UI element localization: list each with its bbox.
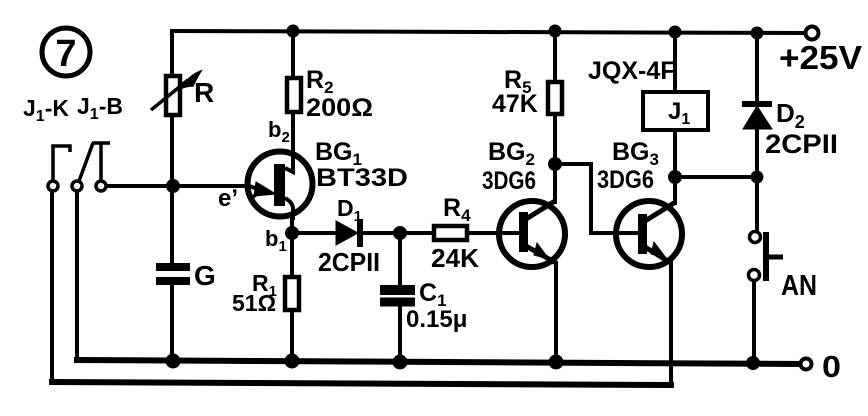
svg-text:BG3: BG3	[612, 138, 659, 169]
svg-text:eʼ: eʼ	[218, 185, 238, 212]
svg-text:D1: D1	[337, 195, 362, 225]
relay coil J1 box	[643, 92, 708, 130]
svg-text:R4: R4	[443, 194, 471, 225]
svg-text:7: 7	[55, 33, 76, 75]
svg-text:+25V: +25V	[779, 39, 862, 76]
svg-text:G: G	[194, 260, 216, 291]
svg-text:2CPII: 2CPII	[765, 129, 838, 159]
resistor R variable	[151, 71, 201, 115]
svg-text:24K: 24K	[431, 243, 479, 273]
svg-text:AN: AN	[781, 270, 817, 302]
resistor R1	[285, 277, 299, 310]
svg-text:0: 0	[822, 349, 841, 384]
wire inner bottom rail 0V	[77, 360, 801, 364]
wire BG3 emitter down to outer rail	[669, 263, 673, 384]
svg-text:51Ω: 51Ω	[232, 290, 276, 316]
wire b1 to R1 vertical	[290, 220, 294, 361]
svg-text:D2: D2	[776, 98, 805, 132]
wire J1 branch x=675	[673, 32, 677, 177]
wire R5 junction to BG3 base	[555, 164, 640, 233]
wire top rail	[172, 31, 806, 33]
wire left branch vertical x=172	[170, 31, 174, 361]
svg-text:b2: b2	[268, 117, 290, 146]
wire node link to D2	[675, 175, 757, 179]
svg-text:2CPII: 2CPII	[318, 247, 380, 277]
svg-text:J1-B: J1-B	[77, 93, 123, 123]
svg-text:47K: 47K	[492, 90, 538, 118]
svg-text:3DG6: 3DG6	[597, 166, 654, 194]
svg-text:BT33D: BT33D	[316, 164, 408, 192]
transistor BG1 unijunction	[246, 150, 313, 220]
wire R5 vertical x=555	[553, 31, 557, 164]
wire C1 vertical	[398, 233, 402, 361]
resistor R5	[548, 82, 562, 114]
wire b1-D1-C1-R4 row y=233	[292, 231, 521, 235]
wire BG3 collector	[673, 177, 677, 203]
contact J1-K	[48, 146, 70, 191]
node junction dots	[166, 25, 764, 371]
diode D2	[742, 104, 772, 129]
svg-text:R2: R2	[306, 66, 334, 97]
pushbutton AN	[749, 232, 784, 282]
capacitor G	[156, 267, 190, 281]
wire outer bottom rail	[52, 382, 671, 385]
svg-text:3DG6: 3DG6	[482, 167, 536, 195]
figure number 7 badge	[42, 28, 90, 76]
svg-text:BG2: BG2	[488, 138, 535, 169]
svg-text:0.15μ: 0.15μ	[406, 306, 467, 333]
terminal 0	[801, 359, 812, 370]
svg-text:JQX-4F: JQX-4F	[588, 57, 676, 85]
svg-text:J1-K: J1-K	[23, 95, 69, 125]
wire left switch leads	[52, 191, 77, 383]
transistor BG2	[499, 201, 565, 267]
wire e row horizontal	[106, 184, 248, 188]
wire BG2 collector	[553, 164, 557, 202]
svg-text:b1: b1	[265, 226, 287, 255]
wire BG2 emitter down	[554, 263, 558, 362]
transistor BG3	[616, 201, 682, 267]
contact J1-B	[72, 143, 110, 191]
wire D2 branch x=757	[755, 33, 759, 237]
svg-text:R: R	[194, 77, 214, 108]
resistor R2	[287, 78, 301, 112]
diode D1	[336, 219, 360, 247]
terminal +25V	[806, 27, 819, 40]
wire AN to bottom rail	[752, 280, 756, 363]
resistor R4	[434, 226, 467, 240]
capacitor C1	[380, 290, 415, 302]
svg-text:200Ω: 200Ω	[306, 94, 373, 122]
wire R2 branch vertical x=293	[291, 31, 295, 155]
